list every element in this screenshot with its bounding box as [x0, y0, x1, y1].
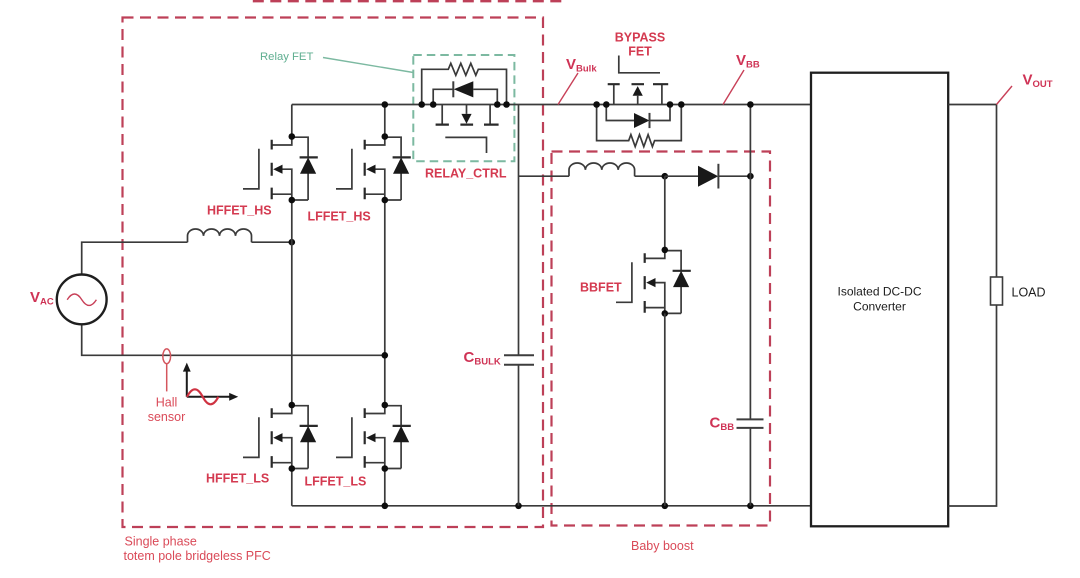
node: HF midpoint junction — [289, 239, 296, 246]
transistor LFFET_LS — [336, 402, 411, 472]
wire: VAC bottom lead — [82, 324, 385, 355]
leader V_BB — [723, 70, 744, 105]
resistor (bypass parallel R) — [597, 105, 682, 147]
wire: LF leg midpoint vertical — [384, 200, 386, 405]
wire: LFFET_LS source lead — [384, 469, 386, 506]
svg-text:Converter: Converter — [853, 300, 906, 314]
Baby boost dashed box — [552, 152, 771, 526]
wire: HF leg midpoint vertical — [291, 200, 293, 405]
svg-text:LOAD: LOAD — [1012, 286, 1046, 300]
resistor (relay FET parallel R) — [422, 63, 507, 104]
wire: baby inductor to BBFET node — [635, 175, 665, 177]
wire: bottom return rail — [292, 505, 811, 507]
Relay FET green dashed box — [413, 55, 514, 161]
node: LFFET_HS top bus junction — [382, 101, 389, 108]
capacitor C_BB plates — [737, 419, 764, 428]
node: rail junction at BBFET — [662, 503, 669, 510]
wire: baby boost feed — [519, 175, 570, 177]
node: bypass diode right junction — [667, 101, 674, 108]
inductor L (baby boost) — [569, 163, 635, 176]
block Isolated DC-DC Converter — [811, 73, 948, 527]
node: BBFET drain branch — [662, 173, 669, 180]
node: V_BB top bus junction — [747, 101, 754, 108]
transistor HFFET_LS — [243, 402, 318, 472]
svg-text:LFFET_HS: LFFET_HS — [308, 210, 371, 224]
svg-text:Single phase: Single phase — [125, 535, 197, 549]
wire: V_OUT top — [948, 105, 996, 278]
svg-text:totem pole bridgeless PFC: totem pole bridgeless PFC — [124, 549, 271, 563]
RELAY_CTRL gate bracket — [445, 137, 486, 153]
wire: V_BB vertical — [749, 105, 751, 506]
PFC stage dashed box — [123, 18, 544, 528]
transistor BYPASS FET (back-to-back) — [608, 84, 669, 104]
node: bypass resistor right junction — [678, 101, 685, 108]
node: relay diode right junction — [494, 101, 501, 108]
svg-text:BBFET: BBFET — [580, 281, 622, 295]
hall sensor axes — [183, 363, 238, 405]
top partial dashed line (cropped box above) — [253, 0, 568, 2]
diode (relay FET parallel D) — [433, 81, 497, 104]
wire: HFFET_HS drain lead — [291, 105, 293, 137]
svg-text:RELAY_CTRL: RELAY_CTRL — [425, 167, 507, 181]
transistor relay FET (back-to-back) — [436, 105, 499, 125]
wire: HFFET_LS source lead — [291, 469, 293, 506]
svg-text:Relay FET: Relay FET — [260, 51, 313, 63]
node: bypass resistor left junction — [593, 101, 600, 108]
svg-text:HFFET_HS: HFFET_HS — [207, 204, 272, 218]
svg-text:sensor: sensor — [148, 410, 186, 424]
wire: BBFET drain lead — [664, 176, 666, 250]
svg-text:HFFET_LS: HFFET_LS — [206, 472, 269, 486]
node: bypass diode left junction — [603, 101, 610, 108]
node: rail junction at LF leg — [382, 503, 389, 510]
svg-text:LFFET_LS: LFFET_LS — [305, 475, 367, 489]
node: baby boost output junction — [747, 173, 754, 180]
source VAC — [57, 275, 107, 325]
svg-text:Hall: Hall — [156, 396, 178, 410]
wire: top bus V_Bulk — [292, 104, 811, 106]
svg-text:Baby boost: Baby boost — [631, 539, 694, 553]
node: relay diode left junction — [430, 101, 437, 108]
leader V_Bulk — [558, 73, 578, 105]
node: relay resistor left junction — [418, 101, 425, 108]
BYPASS FET gate bracket — [619, 56, 660, 73]
node: LF midpoint junction — [382, 352, 389, 359]
leader V_OUT — [997, 86, 1013, 105]
svg-text:Isolated DC-DC: Isolated DC-DC — [837, 285, 921, 299]
hall sensor probe — [163, 349, 171, 392]
svg-text:FET: FET — [628, 45, 652, 59]
diode D_BB — [665, 164, 751, 189]
inductor L (PFC boost) — [188, 229, 252, 242]
capacitor C_BULK plates — [504, 355, 534, 365]
svg-text:BYPASS: BYPASS — [615, 31, 665, 45]
wire: inductor to HF midpoint — [252, 241, 292, 243]
wire: LFFET_HS drain lead — [384, 105, 386, 137]
leader Relay FET — [323, 58, 413, 73]
node: relay resistor right junction — [503, 101, 510, 108]
wire: VAC top lead — [82, 242, 188, 274]
transistor BBFET — [616, 247, 691, 317]
wire: BBFET source lead — [664, 313, 666, 505]
load resistor box — [991, 277, 1003, 305]
wire: load bottom return — [948, 305, 996, 506]
transistor LFFET_HS — [336, 133, 411, 203]
node: rail junction at C_BULK — [515, 503, 522, 510]
diode (bypass parallel D) — [606, 105, 670, 129]
node: rail junction at C_BB — [747, 503, 754, 510]
wire: C_BULK branch vertical — [518, 105, 520, 506]
transistor HFFET_HS — [243, 133, 318, 203]
